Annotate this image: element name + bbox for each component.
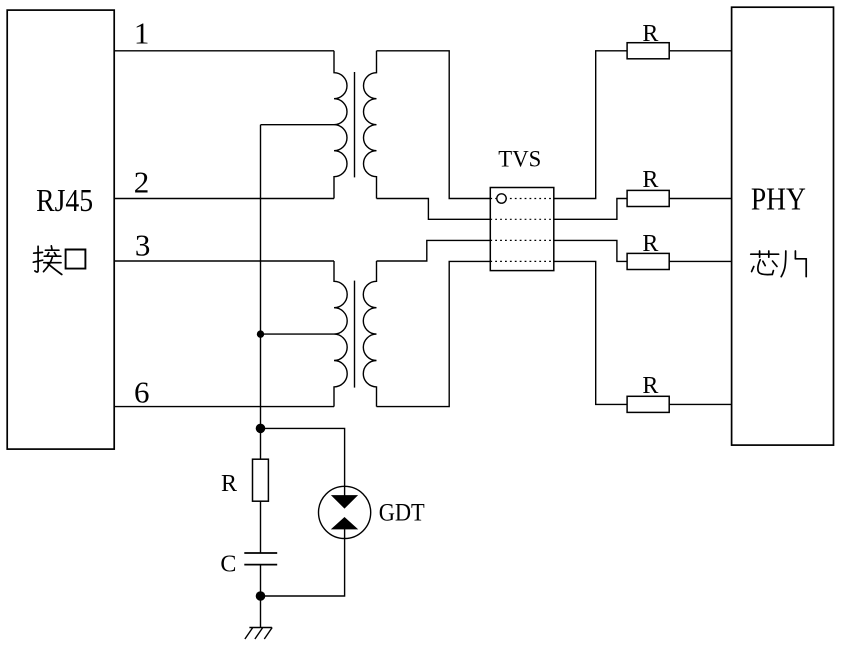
transformer T1 secondary winding: [364, 51, 377, 199]
wire R5 to C: [260, 501, 262, 553]
transformer T2 secondary winding: [363, 261, 376, 407]
junction dot ground node: [256, 591, 266, 601]
TVS box: [490, 188, 554, 271]
wire center-tap bus vertical: [260, 125, 262, 429]
wire GDT branch bottom: [261, 539, 345, 597]
wire R3 to PHY: [669, 260, 731, 262]
TVS pin1 marker circle: [497, 194, 506, 203]
capacitor C top plate: [244, 552, 277, 554]
wire pin1: [114, 50, 334, 52]
wire pin2: [114, 198, 334, 200]
wire R4 to PHY: [669, 403, 731, 405]
wire T2 center tap: [261, 333, 335, 335]
svg-text:3: 3: [135, 228, 151, 263]
capacitor C bottom plate: [244, 564, 277, 566]
transformer T1 primary winding: [334, 51, 347, 199]
svg-text:6: 6: [134, 374, 150, 409]
TVS pin row 3 dotted: [490, 239, 554, 241]
TVS pin row 4 dotted: [490, 260, 554, 262]
svg-text:2: 2: [134, 165, 150, 200]
wire TVS pin2 to R2: [554, 199, 627, 220]
svg-text:GDT: GDT: [379, 500, 425, 527]
resistor R2: [627, 190, 669, 206]
wire T1 secondary bottom to TVS pin2: [377, 199, 491, 220]
resistor R3: [627, 253, 669, 269]
ground symbol: [245, 628, 272, 640]
wire T1 center tap: [261, 124, 335, 126]
svg-text:R: R: [642, 373, 658, 399]
wire GDT branch top: [261, 428, 345, 486]
wire T2 secondary top to TVS pin3: [377, 240, 491, 261]
svg-text:TVS: TVS: [498, 147, 541, 172]
label 芯片 (hand-drawn glyphs): [751, 251, 806, 277]
TVS pin row 2 dotted: [490, 218, 554, 220]
GDT top electrode: [333, 486, 357, 507]
resistor R4: [627, 396, 669, 412]
wire TVS pin4 to R4: [554, 261, 627, 404]
wire C to ground node: [260, 565, 262, 596]
wire TVS pin1 to R1: [554, 51, 627, 199]
svg-text:C: C: [220, 552, 236, 578]
PHY chip box: [732, 7, 834, 445]
RJ45 connector box: [7, 10, 114, 449]
svg-text:R: R: [221, 471, 237, 497]
transformer T1 core: [354, 72, 356, 177]
svg-text:1: 1: [134, 15, 150, 50]
wire ground lead: [260, 596, 262, 628]
TVS pin row 1 dotted: [490, 198, 554, 200]
wire T2 secondary bottom to TVS pin4: [377, 261, 491, 406]
junction dot node A: [256, 424, 266, 434]
wire pin6: [114, 406, 334, 408]
resistor R5: [253, 459, 269, 501]
GDT circle: [319, 486, 371, 538]
wire TVS pin3 to R3: [554, 240, 627, 261]
wire pin3: [114, 260, 334, 262]
transformer T2 primary winding: [334, 261, 347, 407]
wire R2 to PHY: [669, 198, 731, 200]
svg-text:R: R: [642, 167, 658, 193]
junction dot T2 tap: [257, 330, 264, 337]
resistor R1: [627, 43, 669, 59]
wire R1 to PHY: [669, 50, 731, 52]
svg-text:PHY: PHY: [751, 181, 806, 217]
wire T1 secondary top to TVS pin1: [377, 51, 491, 199]
transformer T2 core: [354, 281, 356, 388]
label 接口 (hand-drawn glyphs): [33, 246, 85, 275]
GDT bottom electrode: [333, 518, 357, 539]
svg-text:RJ45: RJ45: [36, 182, 93, 218]
wire node A to resistor R5: [260, 428, 262, 459]
svg-text:R: R: [642, 231, 658, 257]
svg-text:R: R: [642, 21, 658, 47]
